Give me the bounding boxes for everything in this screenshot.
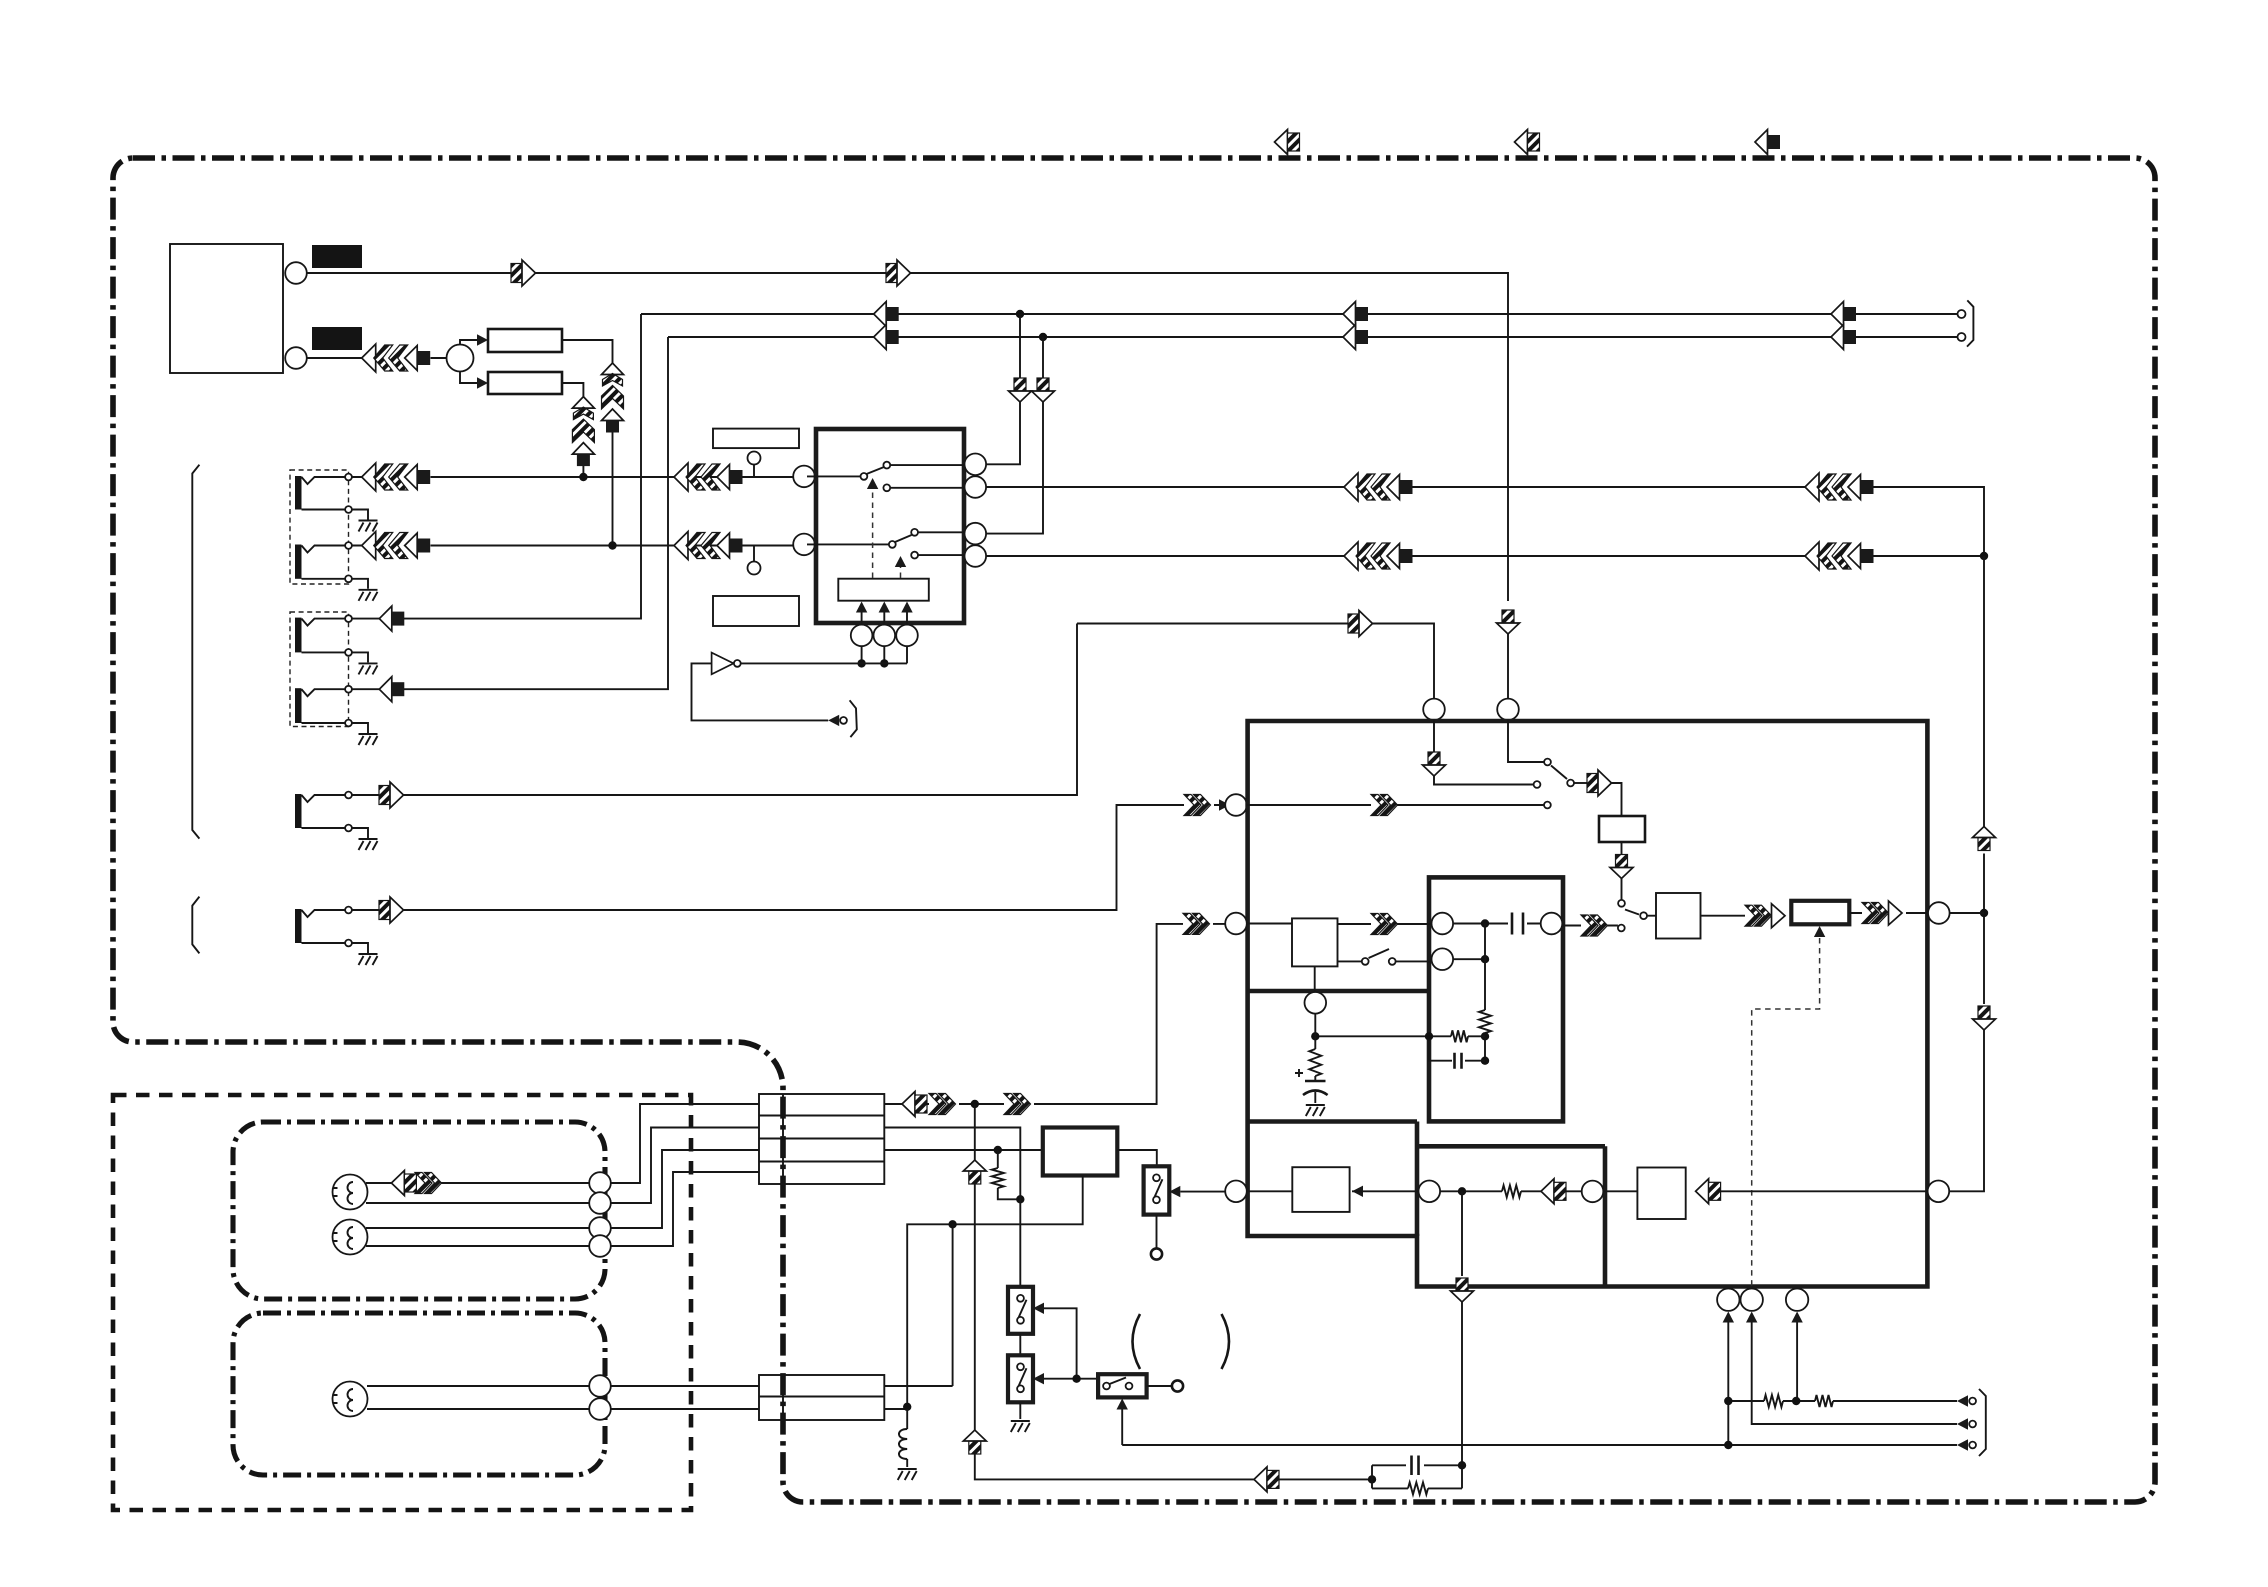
junction jack1 stack bbox=[579, 473, 587, 481]
wire to box E bbox=[1612, 783, 1622, 816]
wire pin to right column bbox=[1950, 912, 1984, 914]
arrow jack6 b bbox=[1184, 795, 1211, 816]
contact F sw a bbox=[1362, 958, 1369, 965]
wire sum to R2 bbox=[460, 372, 478, 384]
box G bbox=[1656, 893, 1701, 939]
wire R2 to stack x=583.4 bbox=[562, 383, 583, 397]
wire jack2 to IC1 bbox=[352, 545, 793, 547]
contact sel pole bbox=[1567, 780, 1574, 787]
box J headphone driver bbox=[1637, 1168, 1685, 1220]
IC1 switch1 pole bbox=[861, 473, 868, 480]
bleeder resistor bbox=[998, 1150, 1021, 1199]
jack 4 line in R bbox=[295, 688, 302, 723]
feedback RC pair bbox=[1315, 1035, 1485, 1037]
wire x=1508 to main IC pin bbox=[1507, 634, 1509, 698]
legend symbol hatched-left-arrow 2 bbox=[1515, 130, 1540, 155]
wire lower line y=358 bbox=[307, 357, 447, 359]
wire I to pin C bbox=[1352, 1190, 1419, 1192]
F sw arm bbox=[1369, 949, 1389, 958]
S2-S3 link bbox=[1019, 1334, 1021, 1356]
arrow bus left bbox=[874, 325, 899, 350]
internal divider y=1121.5 bbox=[1248, 1119, 1417, 1124]
pin IC1 in L bbox=[793, 466, 815, 488]
control bracket bbox=[1979, 1389, 1986, 1456]
lamp2 wires bbox=[366, 1228, 590, 1246]
arrow out of J bbox=[1696, 1179, 1721, 1204]
wire pole to box G bbox=[1647, 915, 1656, 917]
wire into box J bbox=[1604, 1190, 1637, 1192]
wire jack6 right and up to pin bbox=[352, 805, 1220, 910]
internal divider x=1605 bbox=[1603, 1146, 1608, 1286]
cluster rec R b bbox=[1805, 542, 1874, 570]
wire box E down bbox=[1621, 842, 1623, 900]
dashed jack box 1 bbox=[290, 470, 349, 584]
box H master bbox=[1791, 901, 1849, 925]
wire hp pin inside bbox=[1247, 1190, 1292, 1192]
arrow bus mid bbox=[1343, 325, 1368, 350]
pin IC1 in R bbox=[793, 534, 815, 556]
bus line B y=337 bbox=[668, 336, 1957, 338]
box R1 bbox=[488, 329, 562, 352]
IC1 switch1 arm bbox=[867, 467, 885, 474]
IC1 switch2 arm bbox=[895, 535, 912, 542]
arrow into S1 bbox=[1169, 1186, 1180, 1197]
control line 1 with resistors bbox=[1728, 1400, 1957, 1402]
wire pin down to RC bbox=[1314, 1014, 1316, 1037]
cluster G out bbox=[1745, 904, 1785, 928]
bracket input group 2 bbox=[192, 897, 199, 954]
switch S3 power bbox=[1008, 1355, 1033, 1402]
transformer1 out line 3 bbox=[884, 1149, 1043, 1151]
jack 6 mic bbox=[295, 909, 302, 943]
contact F sw b bbox=[1389, 958, 1396, 965]
arrow out 2 on y=273 bbox=[886, 260, 911, 286]
stack arrows x=612.5 bbox=[602, 363, 624, 433]
wire jack4 to bus B bbox=[352, 337, 668, 689]
dashed jack box 2 bbox=[290, 612, 349, 727]
down arrow on x=1508 bbox=[1497, 610, 1520, 634]
block tuner/deck bbox=[170, 244, 283, 373]
pin box B left upper bbox=[1432, 913, 1454, 935]
junction jack2 stack bbox=[608, 541, 616, 549]
wire F bottom to edge pin bbox=[1314, 967, 1316, 992]
sum circle bbox=[447, 345, 474, 372]
pin box B right inner bbox=[1541, 913, 1563, 935]
pin main box top L bbox=[1423, 699, 1445, 721]
IC1 contact D bbox=[911, 552, 918, 559]
dash-dot boundary of main unit bbox=[113, 158, 2155, 1502]
dashed boundary power block bbox=[113, 1095, 691, 1510]
arrow bus right bbox=[1831, 325, 1856, 350]
up arrow right column bbox=[1973, 827, 1996, 851]
res branch bbox=[1372, 1487, 1462, 1489]
bus bracket bbox=[1967, 300, 1973, 346]
IC1 contact C bbox=[911, 529, 918, 536]
cluster shielded on y=358 bbox=[362, 344, 431, 372]
mute terminal arrow bbox=[828, 715, 839, 726]
S4 to terminal bbox=[1147, 1385, 1172, 1387]
dash-dot rounded box lamp group 1 bbox=[233, 1122, 605, 1299]
trim circle jack2 bbox=[748, 562, 761, 575]
lamp2 pins bbox=[589, 1217, 611, 1239]
pin D bottom 3 bbox=[1786, 1289, 1808, 1311]
transformer1 out line 2 bbox=[884, 1128, 1020, 1197]
pin D bottom 1 bbox=[1717, 1289, 1739, 1311]
mute bracket bbox=[850, 700, 857, 737]
vertical divider resistor bbox=[1484, 924, 1486, 1061]
wire sum to R1 bbox=[460, 340, 478, 345]
switch S1 rec bbox=[1144, 1166, 1170, 1214]
S1 bottom terminal bbox=[1156, 1215, 1158, 1248]
transformer connector 1 bbox=[759, 1094, 884, 1184]
label black upper bbox=[312, 245, 362, 268]
arrow jack4 bbox=[379, 677, 404, 702]
wire mic line inside bbox=[1247, 804, 1544, 806]
dash-dot rounded box lamp group 2 bbox=[233, 1313, 605, 1475]
power rail x=974.8 bbox=[975, 1104, 1254, 1479]
lamp1 wires bbox=[366, 1182, 590, 1184]
cluster jack1 b bbox=[674, 463, 743, 491]
jack 1 phone in L bbox=[295, 476, 302, 510]
pin D bottom 2 bbox=[1741, 1289, 1763, 1311]
mains coil bbox=[906, 1409, 908, 1429]
cluster jack2 b bbox=[674, 532, 743, 560]
IC1 contact B bbox=[883, 484, 890, 491]
S4 control arrow bbox=[1117, 1399, 1128, 1410]
inverter U2 bbox=[712, 653, 734, 675]
wire R1 to stack x=612.5 bbox=[562, 340, 613, 363]
arrow aux bbox=[1348, 611, 1373, 637]
arrow into S2 bbox=[1033, 1303, 1044, 1314]
wires lamp pins to transformer bbox=[611, 1104, 759, 1183]
trim circle jack1 bbox=[748, 452, 761, 465]
wires from mute line to pins bbox=[862, 646, 907, 663]
pin box D left bbox=[1582, 1181, 1604, 1203]
inverter input wire bbox=[692, 663, 829, 720]
arrow jack6 bbox=[379, 897, 404, 923]
cluster rec R a bbox=[1344, 542, 1413, 570]
pin main box right out bbox=[1928, 902, 1950, 924]
box R2 bbox=[488, 372, 562, 394]
label box IC1 lower bbox=[713, 596, 799, 626]
wire B lower bbox=[1453, 958, 1485, 960]
wire B upper with cap bbox=[1453, 923, 1541, 925]
transformer1 out line 1 bbox=[884, 924, 1225, 1104]
jack 5 aux bbox=[295, 794, 302, 828]
wire rec out R y=556 bbox=[986, 555, 1984, 557]
bus B terminal bbox=[1958, 333, 1966, 341]
box E level bbox=[1599, 816, 1645, 842]
wire box G out bbox=[1701, 915, 1746, 917]
pin circle out upper bbox=[285, 262, 307, 284]
contact hp lower bbox=[1618, 925, 1625, 932]
lamp 2 bbox=[333, 1220, 368, 1255]
inner box B volume stage bbox=[1429, 877, 1563, 1121]
dashed feedback from connector to box H bbox=[1752, 938, 1820, 1287]
junction bus B bbox=[1039, 333, 1047, 341]
cluster jack1 a bbox=[362, 463, 431, 491]
box F regulator bbox=[1292, 918, 1338, 966]
contact sel a bbox=[1534, 781, 1541, 788]
wire pin top L down bbox=[1434, 721, 1534, 785]
electrolytic to ground bbox=[1314, 1036, 1316, 1081]
trans2 wires from pins bbox=[611, 1386, 759, 1409]
IC1 bottom pins bbox=[851, 625, 873, 647]
cluster H out bbox=[1862, 901, 1902, 925]
arrows into control box bbox=[856, 602, 867, 613]
dashed control 2 bbox=[900, 567, 902, 578]
contact mon a bbox=[1618, 900, 1625, 907]
transformer connector 2 bbox=[759, 1375, 884, 1420]
wire pole to arrow bbox=[1574, 782, 1587, 784]
contact mon pole bbox=[1640, 912, 1647, 919]
lamp1 pins bbox=[589, 1172, 611, 1194]
mon arm bbox=[1625, 910, 1639, 915]
jack 2 phone in R bbox=[295, 545, 302, 579]
stack arrows x=583.4 bbox=[572, 397, 594, 467]
S3 ground bbox=[1019, 1402, 1021, 1419]
bus A terminal bbox=[1958, 310, 1966, 318]
mute bus wire bbox=[741, 662, 907, 664]
lamp3 pins bbox=[589, 1375, 611, 1397]
IC1 right pins bbox=[965, 454, 987, 476]
selector arm bbox=[1551, 766, 1567, 780]
wire B right to contact bbox=[1563, 925, 1618, 927]
vertical x=1462 down bbox=[1461, 1191, 1463, 1488]
control line 3 long bbox=[1122, 1444, 1957, 1446]
wire rail to S2 bbox=[1019, 1196, 1021, 1287]
arrow out 1 on y=273 bbox=[511, 260, 536, 286]
down arrow right column bbox=[1973, 1006, 1996, 1030]
contact sel b bbox=[1544, 759, 1551, 766]
cap branch bbox=[1372, 1464, 1462, 1466]
pin box C right bbox=[1419, 1181, 1441, 1203]
arrow jack3 bbox=[379, 606, 404, 631]
wire bus B down to IC1 bbox=[986, 337, 1043, 534]
switch S2 power bbox=[1008, 1287, 1033, 1334]
wire F out upper bbox=[1338, 923, 1432, 925]
pin main box left power bbox=[1225, 913, 1247, 935]
pin main box right hp bbox=[1928, 1181, 1950, 1203]
box I hp amp bbox=[1292, 1167, 1349, 1212]
bracket input group bbox=[192, 465, 199, 839]
legend symbol black-left-arrow bbox=[1755, 130, 1780, 155]
terminal arrows control bbox=[1957, 1395, 1968, 1406]
label box IC1 upper bbox=[713, 429, 799, 449]
internal divider y=991 bbox=[1248, 989, 1429, 994]
arrow jack5 bbox=[379, 782, 404, 808]
lamp 1 bbox=[333, 1175, 368, 1210]
pin circle main IC top R bbox=[1497, 699, 1519, 721]
arrow into S3 bbox=[1033, 1373, 1044, 1384]
right column wire bbox=[1949, 556, 1984, 1191]
wire jack1 to IC1 bbox=[352, 476, 793, 478]
wire J to right pin bbox=[1721, 1190, 1928, 1192]
trans2 out 2 bbox=[884, 1408, 907, 1410]
legend symbol hatched-left-arrow 1 bbox=[1275, 130, 1300, 155]
arrow to level box bbox=[1587, 770, 1612, 796]
junction bus A bbox=[1016, 310, 1024, 318]
solid arrow into pin bbox=[1219, 799, 1230, 810]
wire bus A down to IC1 bbox=[986, 314, 1020, 464]
wire rec out L y=487 bbox=[986, 487, 1984, 557]
wire to pin B lower bbox=[1396, 960, 1432, 962]
arrow bus mid bbox=[1343, 302, 1368, 327]
wire jack3 to bus A bbox=[352, 314, 641, 619]
pin below divider bbox=[1305, 992, 1327, 1014]
wire pin top R down bbox=[1508, 721, 1544, 763]
wire F out lower bbox=[1338, 960, 1362, 962]
wire stack to jack2 line bbox=[612, 433, 614, 546]
switch S4 power main bbox=[1098, 1374, 1147, 1397]
pin box B left lower bbox=[1432, 948, 1454, 970]
wire across to box D region bbox=[1440, 1190, 1582, 1192]
bus line A y=314 bbox=[641, 313, 1957, 315]
wire jack5 right and up bbox=[352, 624, 1077, 796]
pin main box left hp bbox=[1225, 1181, 1247, 1203]
wire K to S1 bbox=[1117, 1150, 1157, 1166]
internal divider x=1417 bbox=[1415, 1122, 1420, 1237]
dashed control 1 bbox=[872, 492, 874, 578]
label black lower bbox=[312, 327, 362, 350]
junction right column bbox=[1980, 552, 1988, 560]
wire stack to jack1 line bbox=[582, 466, 584, 477]
IC1 input selector box bbox=[816, 429, 964, 623]
cluster jack2 a bbox=[362, 532, 431, 560]
box K relay bbox=[1043, 1128, 1118, 1176]
IC1 control box bbox=[838, 579, 929, 601]
cluster rec L b bbox=[1805, 473, 1874, 501]
internal divider y=1146 bbox=[1417, 1144, 1605, 1149]
jack 3 line in L bbox=[295, 618, 302, 653]
lamp 3 bbox=[333, 1382, 368, 1417]
arrow bus right bbox=[1831, 302, 1856, 327]
wire top line y=273 to right column bbox=[307, 273, 1508, 601]
IC1 switch2 pole bbox=[889, 541, 896, 548]
arrow bus left bbox=[874, 302, 899, 327]
wire K bottom loop bbox=[907, 1176, 1082, 1407]
speaker arcs bbox=[1133, 1314, 1141, 1369]
wire H to pin bbox=[1849, 912, 1928, 914]
contact mic bbox=[1544, 802, 1551, 809]
IC1 contact A bbox=[883, 462, 890, 469]
wires from control pins down bbox=[1727, 1323, 1729, 1446]
lamp3 wires bbox=[367, 1386, 590, 1409]
wire aux to main box bbox=[1077, 624, 1434, 699]
trans2 out 1 bbox=[884, 1224, 952, 1386]
arrow into box I bbox=[1352, 1186, 1363, 1197]
pin main box left jack6 bbox=[1225, 794, 1247, 816]
main amplifier IC outline bbox=[1248, 721, 1928, 1287]
mute terminal circle bbox=[840, 717, 847, 724]
cluster rec L a bbox=[1344, 473, 1413, 501]
pin circle out lower bbox=[285, 347, 307, 369]
wire power pin to box F bbox=[1247, 923, 1292, 925]
RC to ground net bbox=[1254, 1467, 1279, 1492]
